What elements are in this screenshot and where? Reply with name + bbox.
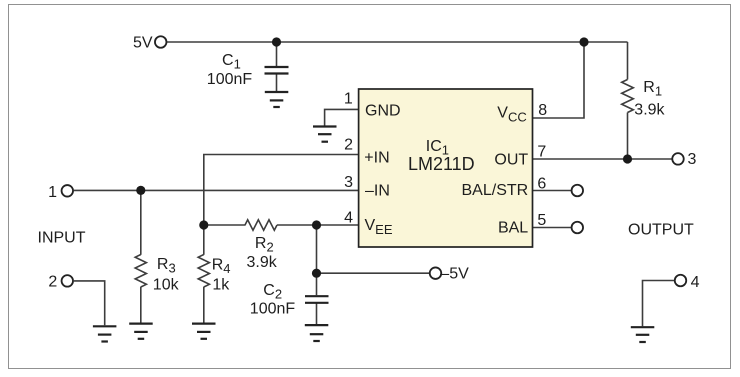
resistor R1 label: [634, 79, 665, 118]
ground (terminal 2): [93, 326, 117, 341]
svg-text:1: 1: [48, 184, 57, 201]
svg-text:2: 2: [344, 137, 353, 154]
wire pin 2 (+IN) branch: [204, 155, 359, 226]
node E (C1 tap on 5V rail): [272, 37, 281, 46]
wire C1 top: [276, 42, 278, 66]
svg-text:1: 1: [344, 91, 353, 108]
resistor R2: [245, 220, 277, 230]
terminal 5V: [133, 34, 166, 51]
node B (R4/R2 junction): [199, 220, 208, 229]
svg-text:3: 3: [688, 151, 697, 168]
terminal 5 open circle: [572, 222, 584, 234]
terminal 4: [675, 274, 700, 291]
wire R2 to node C: [277, 224, 317, 226]
node C (VEE junction): [312, 220, 321, 229]
terminal 1: [48, 184, 73, 201]
svg-text:+IN: +IN: [364, 150, 389, 167]
capacitor C2: [305, 296, 329, 303]
svg-text:–5V: –5V: [440, 265, 469, 282]
wire node C to pin 4 (VEE): [317, 224, 359, 226]
resistor R4 label: [212, 256, 231, 293]
resistor R3 label: [153, 256, 180, 293]
wire R1 to OUT node: [627, 113, 629, 160]
svg-text:3.9k: 3.9k: [634, 101, 665, 118]
terminal 6 open circle: [572, 185, 584, 197]
svg-text:1k: 1k: [212, 276, 230, 293]
svg-text:OUT: OUT: [494, 151, 528, 168]
wire pin 5 stub: [533, 227, 572, 229]
svg-text:100nF: 100nF: [250, 301, 296, 318]
terminal 3: [672, 151, 696, 168]
node A (input junction): [136, 186, 145, 195]
resistor R3: [135, 255, 146, 288]
wire 5V rail: [166, 41, 627, 43]
wire input 1 to pin 3 (-IN): [74, 189, 359, 191]
svg-text:3.9k: 3.9k: [247, 254, 278, 271]
ground (pin 1): [313, 127, 337, 142]
svg-text:LM211D: LM211D: [408, 154, 475, 174]
wire terminal 4 to ground: [643, 281, 675, 327]
wire node D to C2: [316, 273, 318, 295]
wire node D to -5V terminal: [317, 272, 430, 274]
capacitor C1: [265, 67, 289, 74]
wire node A to R3: [140, 190, 142, 254]
svg-text:GND: GND: [365, 103, 401, 120]
wire R3 to ground: [140, 287, 142, 323]
svg-text:INPUT: INPUT: [38, 229, 86, 246]
svg-text:7: 7: [537, 144, 546, 161]
node G (R1/OUT junction): [623, 154, 632, 163]
wire node B to R2: [204, 224, 246, 226]
wire node B to R4: [203, 225, 205, 255]
wire pin 1 to ground: [325, 109, 359, 125]
op-amp U1 (IC1 LM211D comparator body): [359, 89, 533, 247]
ground (R4): [192, 324, 216, 339]
resistor R2 label: [247, 235, 278, 271]
resistor R1: [622, 80, 634, 113]
wire terminal 2 to ground: [74, 281, 105, 325]
svg-text:4: 4: [691, 274, 700, 291]
svg-text:–IN: –IN: [365, 183, 390, 200]
wire pin 6 stub: [533, 190, 572, 192]
ground (C2): [305, 325, 329, 341]
terminal -5V: [430, 265, 469, 282]
svg-text:5: 5: [537, 212, 546, 229]
ground (C1): [265, 92, 289, 107]
capacitor C1 label: [207, 52, 253, 88]
wire VCC branch (rail to pin 8): [533, 42, 585, 118]
svg-text:BAL: BAL: [498, 219, 528, 236]
svg-text:100nF: 100nF: [207, 71, 253, 88]
svg-text:2: 2: [48, 274, 57, 291]
node F (VCC tap on 5V rail): [579, 37, 588, 46]
wire rail to R1: [627, 42, 629, 80]
svg-text:5V: 5V: [133, 34, 153, 51]
svg-text:10k: 10k: [153, 276, 180, 293]
wire OUT (pin 7) to terminal 3: [533, 158, 672, 160]
svg-text:OUTPUT: OUTPUT: [628, 222, 694, 239]
svg-text:4: 4: [344, 210, 353, 227]
svg-text:BAL/STR: BAL/STR: [462, 182, 529, 199]
resistor R4: [198, 255, 209, 288]
svg-text:3: 3: [344, 174, 353, 191]
wire C2 to ground: [316, 303, 318, 324]
svg-text:8: 8: [538, 102, 547, 119]
wire R4 to ground: [203, 287, 205, 323]
node D (-5V/C2 junction): [312, 269, 321, 278]
wire node C down to node D: [316, 225, 318, 273]
svg-text:6: 6: [537, 175, 546, 192]
terminal 2: [48, 274, 73, 291]
wire C1 bottom to ground: [276, 74, 278, 92]
IC1 label: [408, 138, 475, 174]
capacitor C2 label: [250, 282, 296, 318]
ground (terminal 4): [631, 327, 655, 342]
ground (R3): [129, 324, 153, 339]
